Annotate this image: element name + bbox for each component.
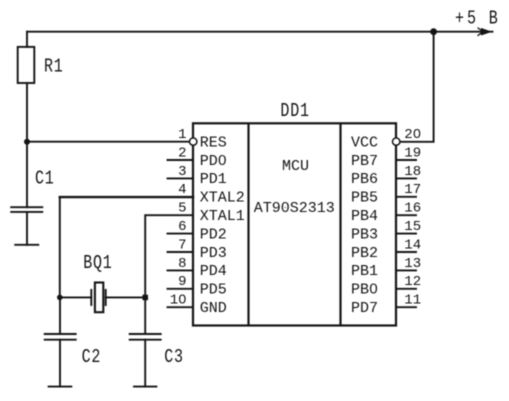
svg-text:XTAL2: XTAL2 <box>200 190 245 207</box>
wire XTAL1 to C3 <box>144 297 146 334</box>
node junction RES/R1/C1 <box>24 139 30 145</box>
node junction +5V rail <box>430 28 437 35</box>
pin 12 stub <box>396 288 416 290</box>
wire BQ1 right <box>106 296 146 298</box>
pin 7 stub <box>168 251 194 253</box>
svg-text:4: 4 <box>178 182 186 198</box>
svg-text:В: В <box>489 8 499 31</box>
svg-text:PD3: PD3 <box>200 245 227 262</box>
svg-text:1: 1 <box>178 127 186 143</box>
svg-text:16: 16 <box>404 201 421 217</box>
svg-text:PD7: PD7 <box>351 300 378 317</box>
svg-text:C3: C3 <box>164 346 184 369</box>
svg-text:MCU: MCU <box>282 158 309 175</box>
wire XTAL2 net <box>60 196 193 198</box>
pin 16 stub <box>396 214 416 216</box>
ground (C3) <box>134 386 156 388</box>
svg-text:7: 7 <box>178 237 186 253</box>
pin 11 stub <box>396 306 416 308</box>
wire XTAL2 to C2 <box>59 297 61 334</box>
wire C3 to ground <box>144 340 146 387</box>
svg-text:R1: R1 <box>44 56 64 79</box>
capacitor C3 <box>130 334 161 340</box>
svg-text:PB6: PB6 <box>351 171 378 188</box>
svg-text:3: 3 <box>178 164 186 180</box>
capacitor C2 <box>45 334 76 340</box>
svg-text:PB4: PB4 <box>351 208 378 225</box>
resistor R1 <box>18 47 35 83</box>
svg-text:2: 2 <box>178 145 186 161</box>
pin 17 stub <box>396 196 416 198</box>
capacitor C1 <box>11 207 42 212</box>
svg-text:12: 12 <box>404 274 421 290</box>
pin 10 stub <box>168 306 194 308</box>
svg-text:PB1: PB1 <box>351 263 378 280</box>
wire VCC pin 20 to rail <box>400 32 434 142</box>
wire C1 to ground <box>26 212 28 245</box>
svg-text:PB2: PB2 <box>351 245 378 262</box>
wire R1 bottom to C1 <box>26 83 28 207</box>
svg-text:DD1: DD1 <box>280 100 309 123</box>
pin 15 stub <box>396 233 416 235</box>
op-amp U1 chip DD1 outline <box>193 123 396 325</box>
svg-text:+: + <box>455 8 465 31</box>
svg-text:XTAL1: XTAL1 <box>200 208 245 225</box>
svg-text:PB5: PB5 <box>351 190 378 207</box>
+5V arrow head <box>482 29 491 35</box>
pin 19 stub <box>396 159 416 161</box>
svg-text:PD4: PD4 <box>200 263 227 280</box>
svg-text:AT90S2313: AT90S2313 <box>254 200 335 217</box>
pin 3 stub <box>168 177 194 179</box>
pin 18 stub <box>396 177 416 179</box>
pin 14 stub <box>396 251 416 253</box>
ground (C1) <box>15 244 38 246</box>
svg-text:PB7: PB7 <box>351 153 378 170</box>
svg-text:PB3: PB3 <box>351 226 378 243</box>
svg-text:5: 5 <box>467 8 477 31</box>
wire +5V top rail <box>27 31 493 33</box>
node junction XTAL1/BQ1/C3 <box>143 295 149 301</box>
svg-text:18: 18 <box>404 164 421 180</box>
svg-text:6: 6 <box>178 219 186 235</box>
svg-text:13: 13 <box>404 256 421 272</box>
svg-text:5: 5 <box>178 201 186 217</box>
pin 6 stub <box>168 233 194 235</box>
svg-text:BQ1: BQ1 <box>83 252 112 275</box>
wire BQ1 left <box>60 296 92 298</box>
pin 20 inversion bubble <box>393 138 400 145</box>
chip divider right <box>339 123 341 325</box>
pin 9 stub <box>168 288 194 290</box>
wire top-left corner down to R1 <box>26 32 28 47</box>
pin 1 inversion bubble <box>190 138 197 145</box>
wire C2 to ground <box>59 340 61 387</box>
svg-text:17: 17 <box>404 182 421 198</box>
svg-text:C1: C1 <box>35 168 55 191</box>
svg-text:PD1: PD1 <box>200 171 227 188</box>
wire XTAL1 net <box>145 215 193 297</box>
svg-text:PD5: PD5 <box>200 282 227 299</box>
crystal BQ1 <box>90 290 92 305</box>
svg-text:VCC: VCC <box>351 134 378 151</box>
svg-text:15: 15 <box>404 219 421 235</box>
pin 13 stub <box>396 269 416 271</box>
svg-text:9: 9 <box>178 274 186 290</box>
svg-text:14: 14 <box>404 237 421 253</box>
svg-text:8: 8 <box>178 256 186 272</box>
node junction XTAL2/BQ1/C2 <box>57 295 63 301</box>
svg-text:C2: C2 <box>82 346 102 369</box>
ground (C2) <box>49 386 72 388</box>
wire RES net to pin 1 <box>27 141 189 143</box>
svg-text:11: 11 <box>404 293 421 309</box>
svg-text:19: 19 <box>404 145 421 161</box>
svg-text:10: 10 <box>170 293 187 309</box>
svg-text:PD2: PD2 <box>200 226 227 243</box>
pin 8 stub <box>168 269 194 271</box>
svg-text:20: 20 <box>404 127 421 143</box>
svg-text:RES: RES <box>200 134 227 151</box>
chip divider left <box>247 123 249 325</box>
svg-text:GND: GND <box>200 300 227 317</box>
pin 2 stub <box>168 159 194 161</box>
